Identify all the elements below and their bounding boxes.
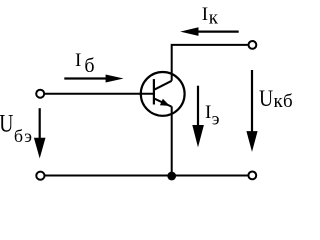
- svg-text:к: к: [209, 7, 219, 28]
- wire base (left terminal to transistor base bar): [45, 93, 154, 95]
- svg-text:U: U: [0, 109, 13, 137]
- wire collector (corner to top-right terminal): [172, 45, 248, 81]
- junction node (emitter to bottom rail): [167, 172, 176, 181]
- wire emitter vertical (to bottom rail): [171, 106, 173, 175]
- wire bottom rail: [45, 175, 248, 177]
- svg-text:э: э: [212, 108, 220, 128]
- svg-text:б: б: [84, 55, 94, 77]
- terminal bottom-right: [248, 172, 256, 180]
- svg-text:бэ: бэ: [14, 126, 33, 146]
- transistor VT1 (NPN, circle envelope): [141, 72, 185, 116]
- current arrow Ik: [180, 27, 239, 36]
- current arrow Ie: [192, 86, 204, 148]
- terminal base (top-left): [36, 90, 44, 98]
- label Ik: [202, 4, 219, 28]
- current arrow Ib: [64, 75, 123, 83]
- svg-text:I: I: [205, 102, 211, 123]
- terminal bottom-left: [36, 172, 44, 180]
- label Ib: [75, 50, 95, 77]
- terminal collector (top-right): [249, 41, 257, 49]
- voltage arrow Ukb: [246, 70, 257, 152]
- svg-text:U: U: [259, 86, 273, 112]
- voltage arrow Ube: [34, 108, 46, 158]
- svg-text:I: I: [75, 50, 81, 71]
- svg-text:I: I: [202, 4, 208, 25]
- svg-text:кб: кб: [274, 91, 294, 112]
- label Ie: [205, 102, 220, 128]
- label Ube: [0, 109, 33, 146]
- label Ukb: [259, 86, 293, 112]
